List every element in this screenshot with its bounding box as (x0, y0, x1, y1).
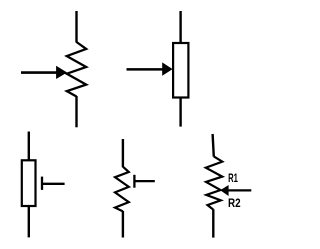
svg-text:R2: R2 (228, 196, 241, 210)
svg-text:R1: R1 (228, 171, 238, 185)
